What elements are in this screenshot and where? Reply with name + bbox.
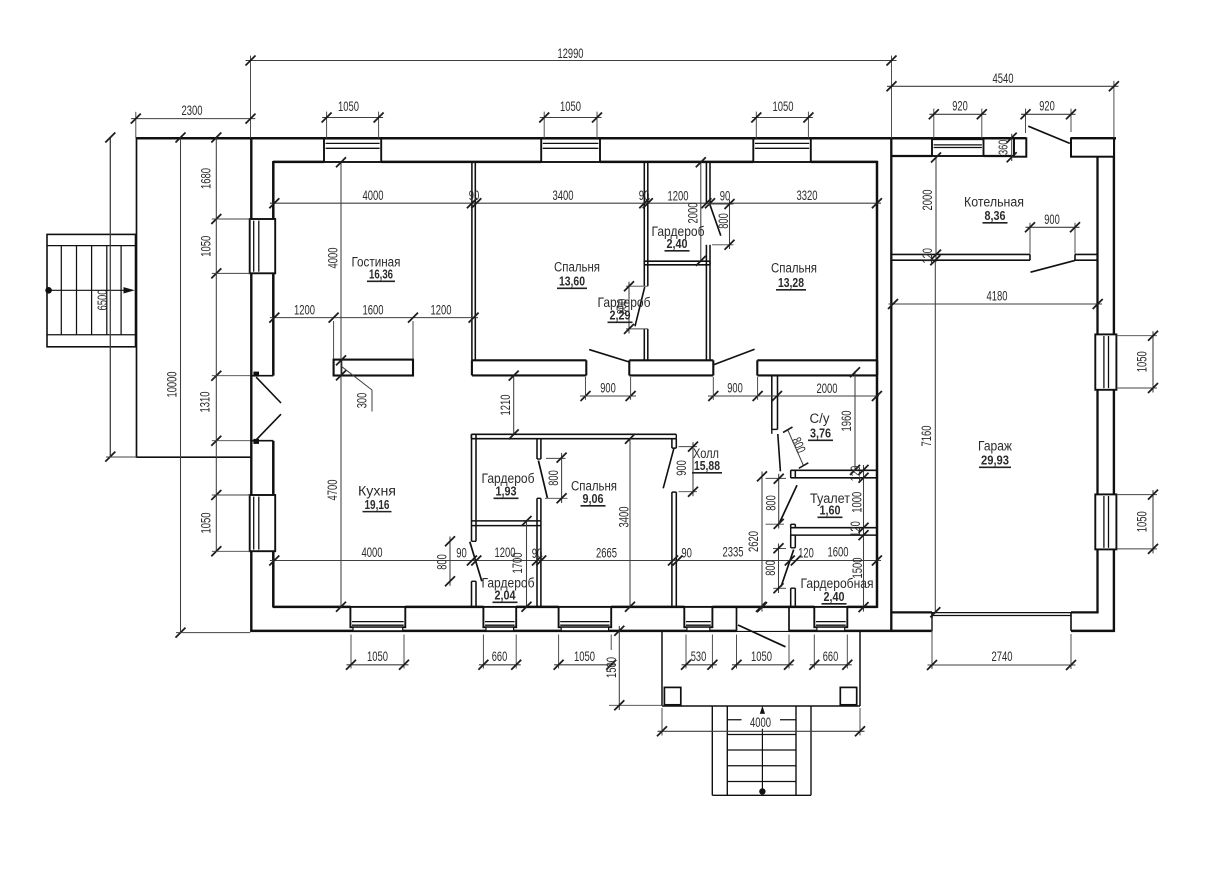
svg-text:530: 530 — [691, 648, 707, 664]
svg-text:1050: 1050 — [338, 98, 359, 114]
svg-text:1050: 1050 — [197, 512, 213, 533]
svg-text:3,76: 3,76 — [810, 426, 831, 441]
svg-text:Спальня: Спальня — [771, 260, 817, 276]
svg-text:1310: 1310 — [196, 391, 212, 412]
svg-text:1960: 1960 — [838, 410, 854, 431]
svg-text:1,60: 1,60 — [820, 503, 841, 518]
svg-text:90: 90 — [532, 545, 543, 561]
svg-text:1050: 1050 — [1133, 351, 1149, 372]
svg-text:360: 360 — [996, 140, 1010, 156]
svg-text:1050: 1050 — [574, 648, 595, 664]
svg-text:90: 90 — [639, 187, 650, 203]
svg-text:900: 900 — [673, 460, 689, 476]
svg-text:900: 900 — [727, 379, 743, 395]
svg-text:920: 920 — [1039, 97, 1055, 113]
svg-text:660: 660 — [492, 648, 508, 664]
svg-text:13,28: 13,28 — [778, 275, 804, 290]
svg-text:4000: 4000 — [363, 187, 384, 203]
svg-text:4000: 4000 — [750, 714, 771, 730]
svg-text:6500: 6500 — [94, 289, 110, 310]
svg-text:120: 120 — [798, 544, 814, 560]
svg-text:1200: 1200 — [495, 544, 516, 560]
svg-text:660: 660 — [823, 648, 839, 664]
svg-text:800: 800 — [762, 560, 778, 576]
svg-text:9,06: 9,06 — [583, 491, 604, 506]
svg-text:2,04: 2,04 — [495, 588, 517, 603]
svg-text:19,16: 19,16 — [365, 497, 390, 512]
svg-text:1050: 1050 — [773, 98, 794, 114]
svg-text:4540: 4540 — [993, 70, 1014, 86]
svg-text:2,29: 2,29 — [610, 308, 631, 323]
svg-text:4000: 4000 — [362, 544, 383, 560]
svg-text:1210: 1210 — [497, 394, 513, 415]
svg-text:800: 800 — [434, 554, 450, 570]
svg-text:1050: 1050 — [560, 98, 581, 114]
svg-text:16,36: 16,36 — [369, 267, 393, 282]
svg-text:4700: 4700 — [324, 479, 340, 500]
svg-text:90: 90 — [681, 544, 692, 560]
svg-text:2000: 2000 — [817, 380, 838, 396]
svg-text:1680: 1680 — [197, 168, 213, 189]
svg-text:90: 90 — [456, 544, 467, 560]
svg-text:1,93: 1,93 — [496, 484, 517, 499]
svg-text:1000: 1000 — [848, 492, 864, 513]
svg-text:1600: 1600 — [828, 543, 849, 559]
svg-text:920: 920 — [952, 97, 968, 113]
svg-text:1050: 1050 — [751, 648, 772, 664]
svg-text:900: 900 — [600, 379, 616, 395]
svg-text:3400: 3400 — [616, 506, 632, 527]
svg-text:8,36: 8,36 — [985, 208, 1006, 223]
svg-text:1200: 1200 — [431, 302, 452, 318]
svg-text:1200: 1200 — [294, 301, 315, 317]
svg-text:800: 800 — [762, 495, 778, 511]
svg-text:2,40: 2,40 — [824, 589, 845, 604]
svg-text:10000: 10000 — [164, 371, 180, 397]
svg-text:800: 800 — [715, 213, 731, 229]
svg-text:2335: 2335 — [723, 543, 744, 559]
svg-text:3400: 3400 — [553, 187, 574, 203]
svg-text:12990: 12990 — [558, 45, 584, 61]
svg-text:3320: 3320 — [797, 187, 818, 203]
svg-text:2000: 2000 — [684, 202, 700, 223]
svg-text:1050: 1050 — [1133, 511, 1149, 532]
svg-text:29,93: 29,93 — [981, 453, 1009, 468]
svg-text:4000: 4000 — [324, 247, 340, 268]
svg-text:1200: 1200 — [668, 187, 689, 203]
svg-text:2000: 2000 — [919, 189, 935, 210]
svg-text:120: 120 — [847, 521, 863, 537]
svg-text:900: 900 — [1044, 211, 1060, 227]
svg-text:С/у: С/у — [810, 411, 831, 427]
svg-text:4180: 4180 — [987, 288, 1008, 304]
svg-text:2665: 2665 — [596, 544, 617, 560]
svg-text:300: 300 — [353, 393, 369, 409]
svg-text:90: 90 — [469, 187, 480, 203]
svg-text:2620: 2620 — [745, 531, 761, 552]
svg-text:1050: 1050 — [197, 236, 213, 257]
svg-text:13,60: 13,60 — [559, 274, 585, 289]
svg-text:800: 800 — [545, 470, 561, 486]
svg-text:2,40: 2,40 — [667, 236, 688, 251]
svg-text:120: 120 — [847, 466, 863, 482]
svg-text:1500: 1500 — [603, 657, 619, 678]
svg-text:90: 90 — [720, 187, 731, 203]
svg-text:1600: 1600 — [363, 302, 384, 318]
svg-text:1050: 1050 — [367, 648, 388, 664]
svg-text:15,88: 15,88 — [694, 458, 720, 473]
svg-text:7160: 7160 — [918, 425, 934, 446]
svg-text:2740: 2740 — [992, 648, 1013, 664]
svg-text:120: 120 — [919, 248, 935, 264]
svg-text:2300: 2300 — [182, 102, 203, 118]
